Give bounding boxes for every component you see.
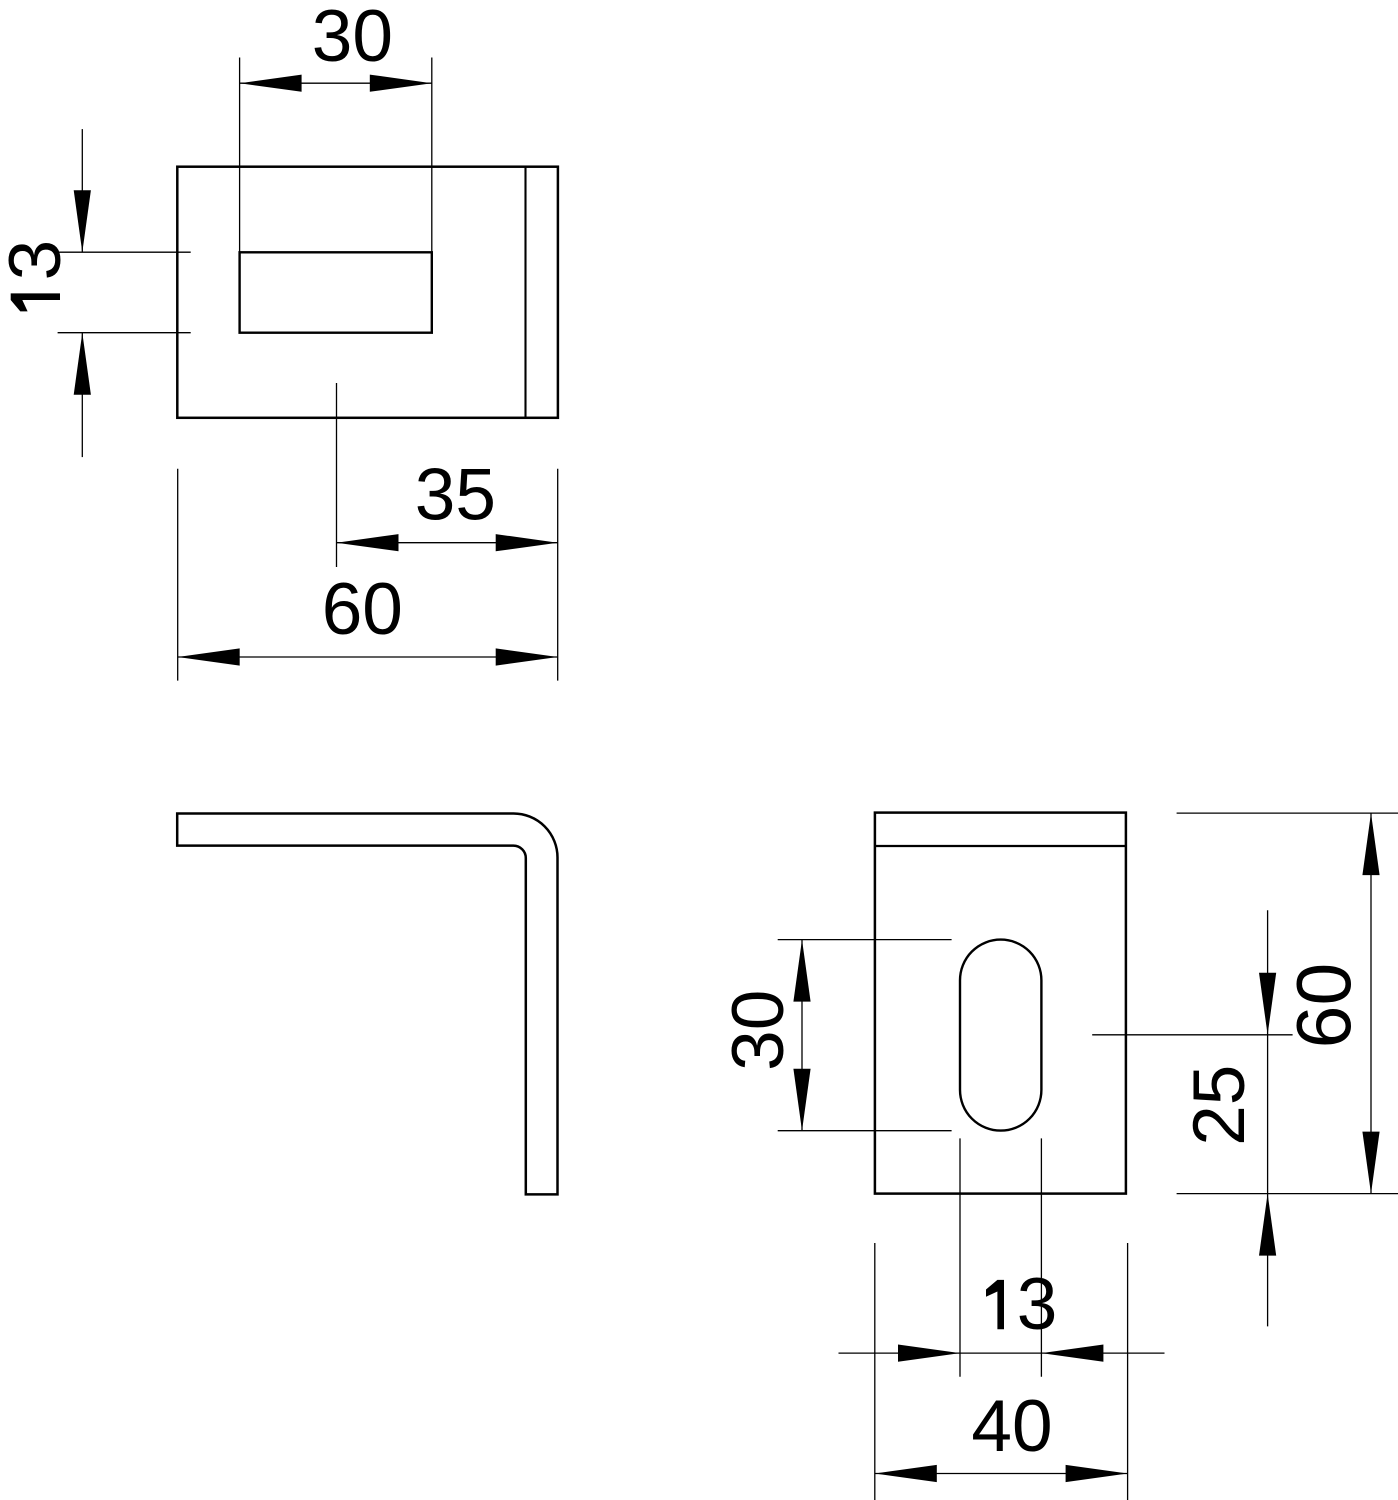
svg-text:3: 3 [1017, 1264, 1058, 1345]
svg-text:60: 60 [1282, 963, 1368, 1049]
dim 13 extension line upper [58, 251, 191, 253]
dim 35 arrow left [337, 534, 399, 551]
dim 30 dimension line [240, 82, 432, 84]
svg-text:25: 25 [1179, 1065, 1260, 1146]
dim 60 arrow top [1362, 813, 1379, 875]
oblong slot [960, 940, 1041, 1131]
dim 30 extension line left [239, 58, 241, 253]
slot center leader line [1092, 1034, 1292, 1036]
svg-text:35: 35 [415, 455, 496, 536]
dim 60 dimension line [178, 656, 558, 658]
front view outline [875, 813, 1126, 1194]
svg-text:40: 40 [971, 1386, 1052, 1467]
bend tangent line [524, 167, 526, 418]
L-profile outline [177, 814, 557, 1195]
dim 30 arrow left [240, 75, 302, 92]
dim 13 dimension line [839, 1352, 1165, 1354]
dim 40 extension line right [1127, 1243, 1129, 1500]
slot (rectangular opening) [240, 252, 432, 332]
dim 60 dimension line [1370, 813, 1372, 1194]
dim 25 arrow upper [1259, 973, 1276, 1035]
dim 30 extension line right [431, 58, 433, 253]
dim 40 arrow left [875, 1465, 937, 1482]
dim 30 arrow right [370, 75, 432, 92]
dim 13 arrow left [898, 1345, 960, 1362]
dim 30 arrow top [793, 940, 810, 1002]
dim 60 arrow left [178, 648, 240, 665]
svg-text:30: 30 [718, 990, 799, 1071]
dim 13 extension line lower [58, 332, 191, 334]
dim 60 extension line right [557, 469, 559, 681]
slot centerline [336, 383, 338, 567]
dim 35 arrow right [496, 534, 558, 551]
dim 30 extension line bottom [778, 1130, 952, 1132]
bend edge line [875, 845, 1126, 847]
dim 40 dimension line [875, 1473, 1128, 1475]
dim 60 extension line top [1177, 812, 1398, 814]
dim 30 arrow bottom [793, 1069, 810, 1131]
dim 13 extension line left [959, 1138, 961, 1376]
dim 25 dimension line [1267, 910, 1269, 1326]
top view outline [177, 167, 558, 418]
dim 13 arrow lower [74, 333, 91, 395]
dim 60 arrow right [496, 648, 558, 665]
dim 60 extension line bottom [1177, 1193, 1398, 1195]
dim 13 arrow right [1041, 1345, 1103, 1362]
dim 13 arrow upper [74, 190, 91, 252]
dim 40 extension line left [874, 1243, 876, 1500]
dim 13 leader lower [81, 333, 83, 457]
svg-text:3: 3 [0, 240, 76, 281]
dim 30 extension line top [778, 939, 952, 941]
dim 13 extension line right [1040, 1138, 1042, 1376]
dim 30 dimension line [801, 940, 803, 1131]
dim 60 extension line left [177, 469, 179, 681]
svg-text:30: 30 [312, 0, 393, 77]
svg-text:60: 60 [322, 569, 403, 650]
dim 40 arrow right [1066, 1465, 1128, 1482]
dim 35 dimension line [337, 542, 558, 544]
dim 60 arrow bottom [1362, 1132, 1379, 1194]
dim 13 leader upper [81, 129, 83, 252]
dim 25 arrow lower [1259, 1194, 1276, 1256]
